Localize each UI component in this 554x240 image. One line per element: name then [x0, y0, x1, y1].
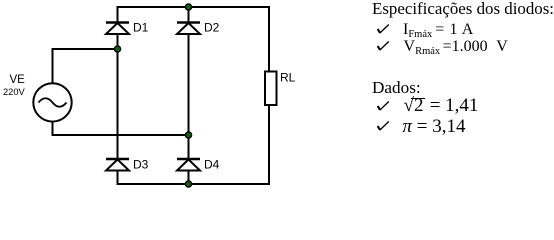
diode D2	[177, 23, 200, 35]
junction node top (D2 cathode on top bus)	[185, 3, 193, 11]
wire top bus (D1 cathode to RL top)	[118, 7, 271, 8]
wire left column lower (D3 to bottom bus)	[117, 171, 119, 185]
wire bottom bus (D3 anode to RL bottom)	[118, 183, 271, 184]
diode D1	[106, 23, 129, 35]
svg-text:D3: D3	[133, 158, 149, 172]
wire source bottom lead (VE minus terminal to node B)	[53, 121, 189, 135]
junction node A (AC input left on D1-D3 column)	[114, 45, 122, 53]
resistor RL	[265, 72, 277, 106]
junction node bottom (D4 anode on bottom bus)	[185, 180, 193, 188]
voltage source VE	[33, 83, 71, 121]
svg-text:D4: D4	[204, 158, 220, 172]
svg-text:220V: 220V	[3, 87, 26, 97]
diode D4	[177, 159, 200, 171]
wire left column upper (top bus to D1)	[117, 7, 119, 23]
wire mid column upper (top bus to D2)	[188, 7, 190, 23]
wire source top lead (VE plus terminal to node A)	[53, 49, 118, 84]
wire right branch upper (top bus down to RL)	[268, 7, 270, 72]
wire right branch lower (RL to bottom bus)	[268, 104, 270, 184]
svg-text:RL: RL	[280, 70, 296, 84]
junction node B (AC input right on D2-D4 column)	[185, 131, 193, 139]
svg-text:D2: D2	[204, 21, 220, 35]
svg-text:VE: VE	[10, 74, 26, 86]
wire mid column lower (D4 to bottom bus)	[188, 171, 190, 185]
wire left column middle (D1 anode through node A down to D3 cathode)	[117, 34, 119, 159]
right-hand specification text	[372, 1, 554, 18]
svg-text:D1: D1	[133, 21, 149, 35]
diode D3	[106, 159, 129, 171]
wire mid column middle (D2 anode through node B down to D4 cathode)	[188, 34, 190, 159]
